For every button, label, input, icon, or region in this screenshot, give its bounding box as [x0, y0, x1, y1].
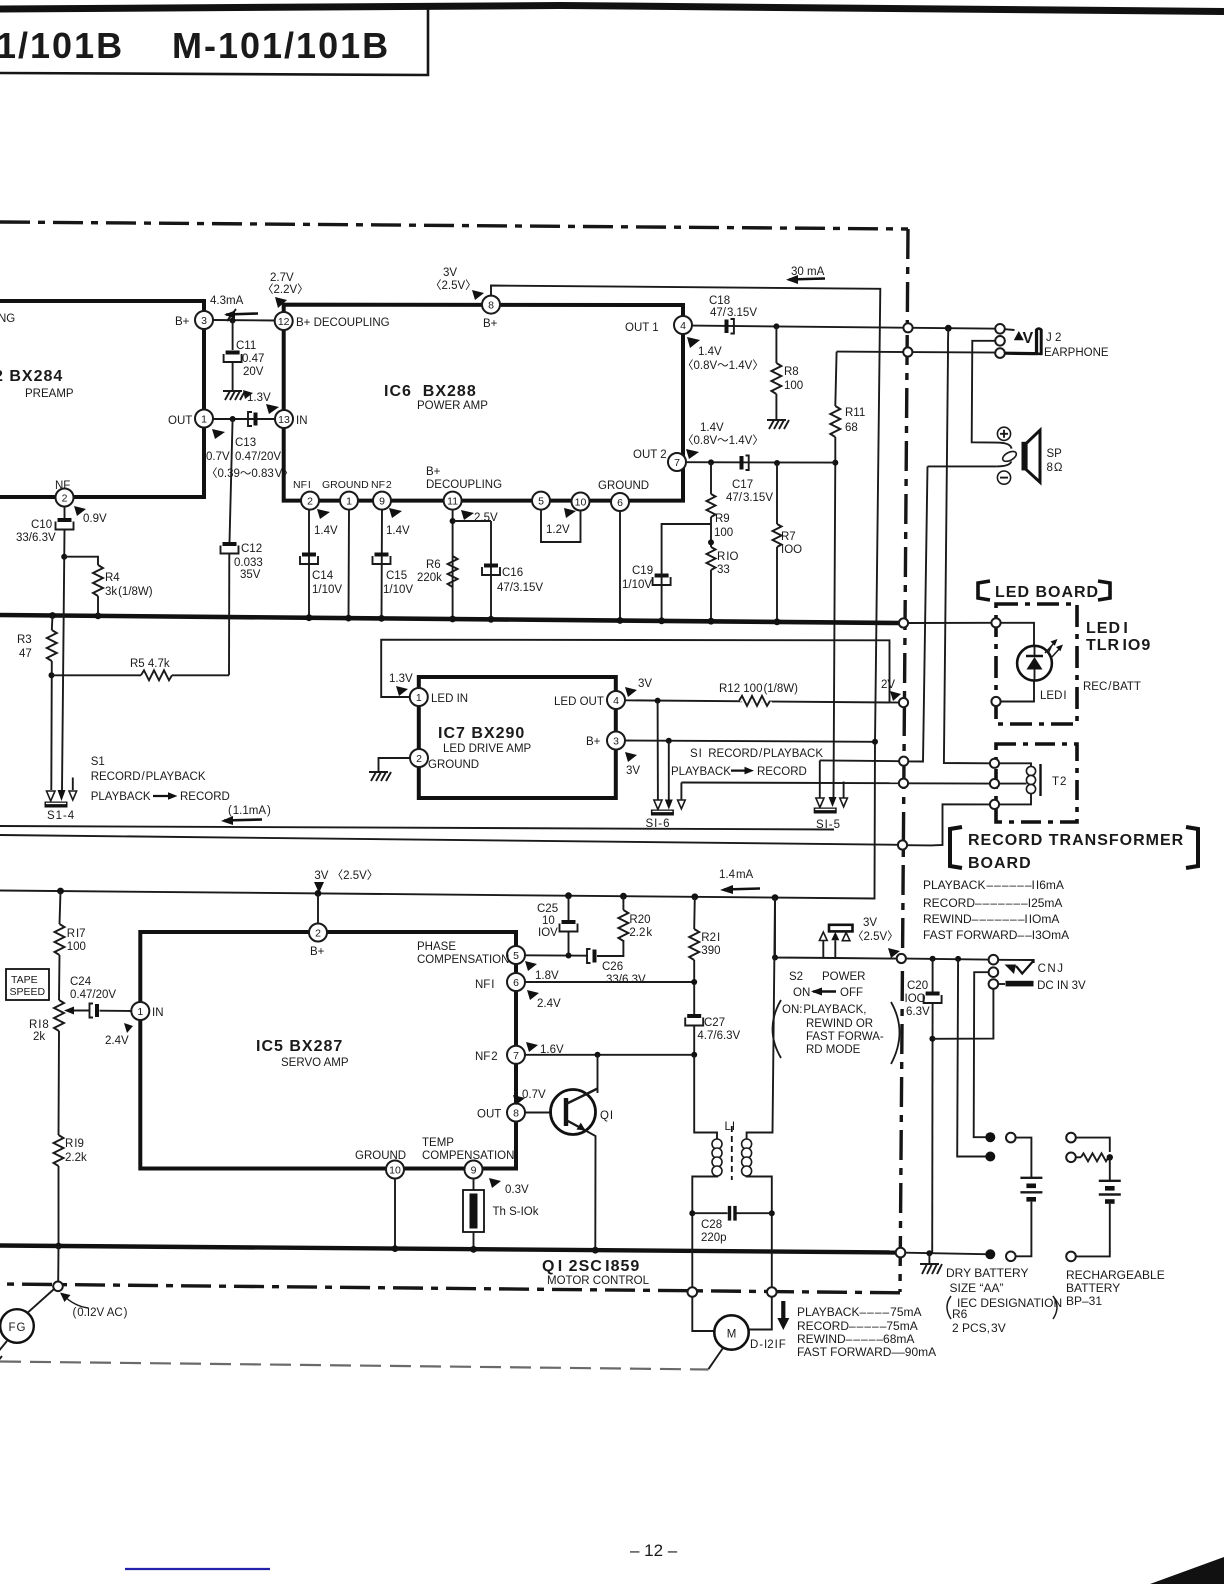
lower dashed boundary (gray): [0, 1362, 709, 1370]
pin 8 B+ top: [482, 296, 500, 330]
LED1 diode symbol: [1017, 639, 1066, 702]
svg-text:4: 4: [680, 320, 686, 332]
svg-text:IN: IN: [296, 415, 308, 427]
svg-text:10: 10: [389, 1165, 401, 1177]
T2 board pin 1: [990, 759, 999, 768]
svg-text:LED I: LED I: [1086, 620, 1129, 637]
svg-text:S I - 5: S I - 5: [816, 819, 840, 831]
board feedthrough circle SP- line: [899, 757, 908, 766]
svg-text:Q I: Q I: [600, 1110, 613, 1122]
battery - contact: [985, 1249, 995, 1259]
svg-text:47/ 3.15V: 47/ 3.15V: [726, 492, 773, 504]
wire pin4 R12 run to board: [625, 700, 903, 702]
pin 1 OUT of IC2: [168, 410, 213, 428]
svg-text:ON: ON: [793, 987, 810, 999]
pin 10: [572, 493, 590, 511]
power rail 3V: [0, 742, 875, 899]
svg-text:PLAYBACK– – – – 75mA: PLAYBACK– – – – 75mA: [797, 1305, 922, 1319]
resistor R10 33: [707, 547, 739, 621]
node SP+ tap: [945, 325, 952, 332]
svg-text:9: 9: [471, 1165, 477, 1177]
tape speed box: [6, 969, 49, 1000]
capacitor C28 220p: [689, 1206, 775, 1244]
wire pin1 drop to bus: [348, 510, 351, 618]
svg-text:B+: B+: [483, 318, 498, 330]
voltage 3V at pin3: [625, 752, 640, 777]
svg-text:OUT 1: OUT 1: [625, 322, 659, 334]
svg-text:3V: 3V: [638, 678, 652, 690]
label DRY BATTERY: [946, 1266, 1062, 1335]
svg-text:1/101B: 1/101B: [0, 25, 124, 66]
svg-text:FAST FORWA-: FAST FORWA-: [806, 1031, 884, 1043]
capacitor C24: [70, 976, 131, 1018]
voltage 1.4V at pin2: [314, 509, 338, 537]
svg-text:R5 4.7k: R5 4.7k: [130, 658, 170, 670]
wire pin1 feed from bus area: [381, 640, 889, 702]
svg-text:R IO: R IO: [717, 551, 738, 563]
wire inside LED board top: [1001, 623, 1034, 646]
capacitor C25: [537, 896, 578, 956]
current arrow 4.3mA: [210, 295, 258, 321]
svg-text:10: 10: [575, 497, 587, 509]
wire pin7 run: [525, 1054, 694, 1056]
wire SP- down to board circle: [908, 466, 997, 761]
board feedthrough circle supply: [897, 954, 906, 963]
capacitor C12: [221, 542, 263, 581]
svg-text:0.3V: 0.3V: [505, 1184, 529, 1196]
svg-text:47/ 3.15V: 47/ 3.15V: [710, 307, 757, 319]
svg-text:R8: R8: [784, 366, 799, 378]
svg-text:〈2.5V〉: 〈2.5V〉: [430, 279, 477, 292]
label 0.12V AC with leader: [60, 1293, 128, 1320]
svg-text:2: 2: [307, 496, 313, 508]
current arrow 30mA: [786, 266, 825, 284]
svg-text:IC5 BX287: IC5 BX287: [256, 1038, 343, 1055]
node feedthrough: [1006, 1252, 1016, 1262]
resistor R3 47: [17, 616, 57, 791]
battery + contact upper: [985, 1132, 995, 1142]
junction: [689, 1210, 695, 1216]
pin 8 OUT: [477, 1104, 525, 1122]
svg-text:〈2.5V〉: 〈2.5V〉: [852, 930, 899, 943]
svg-text:CNJ: CNJ: [1038, 963, 1065, 975]
svg-text:0.033: 0.033: [234, 557, 263, 569]
svg-text:IOV: IOV: [538, 927, 558, 939]
transformer T2: [999, 763, 1066, 804]
bus termination circle at board line: [899, 618, 908, 627]
svg-text:C11: C11: [236, 340, 256, 352]
voltage 1.2V at pin10: [546, 508, 576, 536]
svg-text:8 Ω: 8 Ω: [1047, 462, 1063, 474]
svg-text:REWIND OR: REWIND OR: [806, 1018, 873, 1030]
svg-text:〈0.39〜0.83 V〉: 〈0.39〜0.83 V〉: [206, 467, 294, 480]
node feedthrough: [989, 955, 999, 965]
svg-text:COMPENSATION: COMPENSATION: [422, 1150, 514, 1162]
junction: [378, 615, 385, 622]
svg-text:C25: C25: [537, 903, 558, 915]
svg-text:F G: F G: [9, 1322, 26, 1334]
svg-text:1.4V: 1.4V: [700, 422, 724, 434]
svg-text:100: 100: [784, 380, 803, 392]
svg-text:5: 5: [538, 496, 544, 508]
DC jack CNJ: [989, 955, 1086, 992]
resistor R12 100 (1/8W): [719, 683, 798, 706]
svg-text:0.7V: 0.7V: [206, 451, 230, 463]
svg-text:11: 11: [447, 496, 458, 508]
svg-text:4.7/6.3V: 4.7/6.3V: [697, 1030, 740, 1042]
node feedthrough: [53, 1282, 63, 1292]
svg-text:6: 6: [513, 977, 519, 989]
wire supply to CNJ: [906, 959, 995, 960]
svg-text:3V: 3V: [443, 267, 457, 279]
svg-text:POWER: POWER: [822, 971, 865, 983]
svg-text:1.3V: 1.3V: [247, 392, 271, 404]
svg-text:RECORD / PLAYBACK: RECORD / PLAYBACK: [91, 771, 206, 783]
svg-text:NF 2: NF 2: [371, 479, 392, 491]
dry battery holder + battery: [1006, 1133, 1042, 1261]
junction: [315, 890, 322, 897]
svg-text:33/6.3V: 33/6.3V: [606, 974, 646, 986]
voltage 1.3V at C11 ground: [243, 390, 271, 404]
svg-text:Th S-IOk: Th S-IOk: [493, 1206, 539, 1218]
svg-text:35V: 35V: [240, 569, 261, 581]
svg-text:1/10V: 1/10V: [622, 579, 652, 591]
junction: [565, 892, 572, 899]
svg-text:DRY BATTERY: DRY BATTERY: [946, 1266, 1028, 1280]
pin 2 B+ top: [309, 893, 327, 958]
svg-text:NF 2: NF 2: [475, 1051, 498, 1063]
T2 board pin 2: [990, 779, 999, 788]
wire OUT2 run: [686, 461, 835, 463]
svg-text:C16: C16: [502, 567, 523, 579]
svg-text:B+: B+: [586, 736, 601, 748]
voltage 1.6V at pin7: [526, 1042, 564, 1056]
svg-text:LED I: LED I: [1040, 690, 1067, 702]
LED board outline (dash-dot): [996, 604, 1077, 724]
pin 5: [532, 492, 550, 510]
junction: [566, 953, 572, 959]
wire pin3 B+ run: [625, 741, 875, 742]
junction: [95, 613, 102, 620]
svg-text:COMPENSATION: COMPENSATION: [417, 954, 509, 966]
svg-text:RECORD TRANSFORMER: RECORD TRANSFORMER: [968, 832, 1184, 849]
svg-text:100: 100: [67, 941, 86, 953]
svg-text:R7: R7: [781, 531, 796, 543]
svg-text:100: 100: [714, 527, 733, 539]
svg-text:2 BX284: 2 BX284: [0, 368, 63, 385]
svg-text:B+: B+: [310, 946, 325, 958]
svg-text:TEMP: TEMP: [422, 1137, 454, 1149]
svg-text:REWIND– – – – –68mA: REWIND– – – – –68mA: [797, 1332, 914, 1346]
capacitor C15: [373, 553, 414, 597]
node pin4 tap: [655, 698, 661, 704]
board feedthrough circles motor leads: [688, 1287, 698, 1297]
wire C11 drop: [232, 321, 234, 351]
wire motor to tach dashed link: [709, 1348, 724, 1369]
svg-text:1.4 mA: 1.4 mA: [719, 869, 754, 881]
svg-text:C14: C14: [312, 570, 334, 582]
svg-text:1.2V: 1.2V: [546, 524, 570, 536]
svg-text:PLAYBACK: PLAYBACK: [671, 766, 731, 778]
node feedthrough: [767, 1287, 777, 1297]
resistor R20 2.2k: [618, 896, 652, 941]
svg-text:NG: NG: [0, 313, 15, 325]
svg-text:R20: R20: [629, 914, 650, 926]
svg-text:REC / BATT: REC / BATT: [1083, 681, 1141, 693]
speaker SP 8ohm: [997, 427, 1063, 484]
wire pin9 drop to bus: [381, 510, 384, 618]
capacitor C13: [235, 412, 258, 449]
transistor Q1: [525, 1055, 613, 1249]
svg-text:Q I 2SC I859: Q I 2SC I859: [542, 1258, 640, 1275]
thermistor Th S-10k: [463, 1179, 539, 1249]
scan corner wedge: [1150, 1557, 1224, 1584]
resistor R8 100: [771, 326, 803, 394]
svg-text:RECORD– – – – –75mA: RECORD– – – – –75mA: [797, 1319, 918, 1333]
svg-text:PREAMP: PREAMP: [25, 388, 74, 400]
svg-text:1/10V: 1/10V: [383, 584, 413, 596]
pin 3 B+ of IC2: [175, 311, 213, 329]
voltage 1.3V at pin1: [389, 673, 413, 696]
svg-text:6: 6: [617, 497, 623, 509]
pin 7 OUT2: [633, 449, 686, 471]
svg-text:NF I: NF I: [293, 479, 311, 491]
svg-text:〈2.2V〉: 〈2.2V〉: [262, 283, 309, 296]
wire C11 to ground: [232, 363, 234, 392]
node feedthrough: [995, 324, 1005, 334]
motor supply bus: [0, 1246, 898, 1253]
resistor R6 220k: [417, 556, 458, 587]
voltage 1.8V at pin5: [525, 961, 559, 982]
wire pin1 to C13 to pin13: [213, 418, 275, 420]
voltage 0.7V at pin1: [206, 429, 230, 463]
pin 9 NF2: [371, 479, 392, 510]
svg-text:8: 8: [513, 1108, 519, 1120]
svg-text:2: 2: [315, 928, 321, 940]
board feedthrough circle motor bus: [896, 1248, 906, 1258]
wire R11 to OUT2 node to S1-5: [834, 437, 836, 797]
voltage 0.3V at pin9: [489, 1178, 529, 1196]
svg-text:33: 33: [717, 564, 730, 576]
wire pin6 run: [525, 981, 694, 983]
svg-text:OFF: OFF: [840, 987, 863, 999]
resistor R4 3k: [64, 557, 153, 616]
node OUT2 junction: [832, 460, 838, 466]
junction: [658, 617, 665, 624]
junction: [955, 956, 961, 962]
voltage 1.4V at pin9: [386, 508, 410, 537]
wire J2 middle to SP+: [972, 341, 997, 443]
svg-text:R11: R11: [845, 407, 865, 419]
svg-text:5: 5: [513, 950, 519, 962]
svg-text:9: 9: [379, 496, 385, 508]
IC5 BX287 servo amp box: [140, 932, 516, 1169]
label LED BOARD heading: [978, 581, 1110, 601]
pin 2 NF of IC2: [55, 480, 74, 507]
outer board border right (dash-dot): [900, 229, 908, 1292]
svg-text:R4: R4: [105, 572, 120, 584]
svg-text:2k: 2k: [33, 1031, 45, 1043]
pin 2 NF1: [293, 479, 319, 510]
svg-text:33/6.3V: 33/6.3V: [16, 532, 56, 544]
svg-text:GROUND: GROUND: [355, 1150, 406, 1162]
svg-text:C24: C24: [70, 976, 92, 988]
label ON-OFF: [793, 987, 863, 999]
potentiometer R18 2k: [29, 955, 90, 1135]
wire B+ pin8 riser and top run to x880: [491, 286, 880, 742]
junction: [592, 1247, 599, 1254]
voltage 1.4V at OUT1: [682, 337, 764, 372]
svg-text:6.3V: 6.3V: [906, 1006, 930, 1018]
svg-text:2 PCS, 3V: 2 PCS, 3V: [952, 1321, 1006, 1335]
label 1.1mA with arrow: [221, 805, 271, 825]
svg-text:0.7V: 0.7V: [522, 1089, 546, 1101]
node C20 branch to CNJ sleeve: [929, 1036, 935, 1042]
svg-text:POWER AMP: POWER AMP: [417, 400, 488, 412]
svg-text:R I9: R I9: [65, 1138, 84, 1150]
wire C19 riser and link: [662, 524, 711, 620]
outer board border top (dash-dot): [0, 222, 908, 229]
node feedthrough: [1006, 1133, 1016, 1143]
svg-text:0.47/20V: 0.47/20V: [70, 989, 116, 1001]
junction: [769, 1210, 775, 1216]
junction: [345, 615, 352, 622]
wire J2 sleeve run y351: [837, 352, 999, 353]
svg-text:FAST FORWARD––90mA: FAST FORWARD––90mA: [797, 1345, 936, 1359]
junction: [772, 955, 778, 961]
svg-text:47/3.15V: 47/3.15V: [497, 582, 543, 594]
ground below C11: [223, 391, 245, 400]
label 3V 2.5V rail: [313, 866, 378, 893]
node feedthrough: [995, 348, 1005, 358]
board feedthrough circle T2 pin2 line: [899, 779, 908, 788]
svg-text:D - I2 I F: D - I2 I F: [750, 1339, 786, 1351]
bus dots: [55, 1243, 62, 1250]
pin 6 NF1: [475, 973, 525, 991]
node feedthrough: [989, 967, 999, 977]
svg-text:3k (1/8W): 3k (1/8W): [105, 586, 153, 598]
resistor R7 100: [773, 463, 803, 621]
board feedthrough circle OUT1: [903, 323, 912, 332]
svg-text:2.7V: 2.7V: [270, 272, 294, 284]
resistor R11 68: [830, 406, 865, 437]
svg-text:1.3V: 1.3V: [389, 673, 413, 685]
capacitor C18: [709, 295, 757, 334]
voltage 2.7V 2.2V at pin12: [262, 272, 309, 308]
svg-text:R6: R6: [952, 1307, 968, 1321]
node R7 tap: [774, 460, 780, 466]
svg-text:C12: C12: [241, 543, 262, 555]
svg-text:IN: IN: [152, 1007, 164, 1019]
wire pin3 to pin12: [213, 319, 275, 322]
svg-text:MOTOR CONTROL: MOTOR CONTROL: [547, 1275, 650, 1287]
svg-text:S1: S1: [91, 756, 105, 768]
wire bus to battery contact: [905, 1253, 985, 1255]
junction: [620, 893, 627, 900]
pin 7 NF2: [475, 1046, 525, 1064]
blue margin line: [125, 1568, 270, 1570]
svg-text:DC IN 3V: DC IN 3V: [1037, 980, 1086, 992]
svg-text:GROUND: GROUND: [428, 759, 479, 771]
IC2 BX284 preamp box (cut at left edge): [0, 301, 204, 497]
svg-text:1.4V: 1.4V: [698, 346, 722, 358]
svg-text:M: M: [727, 1329, 737, 1341]
svg-text:LED BOARD: LED BOARD: [995, 584, 1099, 601]
board feedthrough circle L2: [898, 840, 907, 849]
capacitor C26: [587, 940, 646, 986]
board feedthrough circle sleeve: [903, 347, 912, 356]
board feedthrough circle LED line: [899, 698, 908, 707]
long wire L1: [0, 826, 834, 830]
svg-text:L I: L I: [725, 1121, 736, 1133]
svg-text:R9: R9: [715, 513, 730, 525]
svg-text:1.4V: 1.4V: [386, 525, 410, 537]
svg-text:3: 3: [613, 736, 619, 748]
svg-text:2.5V: 2.5V: [474, 512, 498, 524]
pin 5 phase compensation: [417, 941, 525, 966]
svg-text:R2 I: R2 I: [701, 932, 720, 944]
node feedthrough: [989, 979, 999, 989]
svg-text:RECORD: RECORD: [757, 766, 807, 778]
node junction C11 tap: [230, 318, 236, 324]
svg-text:C10: C10: [31, 519, 52, 531]
junction: [774, 618, 781, 625]
wire C12 column (from C13 node down through C12 to R5): [230, 419, 233, 542]
wire S1-6 to T2 pin2: [681, 782, 903, 785]
svg-text:S I RECORD / PLAYBACK: S I RECORD / PLAYBACK: [690, 748, 823, 760]
svg-text:R12 100 (1/8W): R12 100 (1/8W): [719, 683, 798, 695]
svg-text:IC6 BX288: IC6 BX288: [384, 383, 477, 400]
voltage 3V 2.5V at pin8: [430, 267, 484, 300]
svg-text:OUT: OUT: [477, 1109, 501, 1121]
capacitor C27: [685, 1014, 740, 1055]
svg-text:ON: PLAYBACK,: ON: PLAYBACK,: [782, 1004, 866, 1016]
svg-text:68: 68: [845, 422, 858, 434]
rechargeable battery: [1066, 1133, 1121, 1261]
wire J2 tip net to T2 pin1: [944, 353, 990, 764]
node feedthrough: [1066, 1133, 1076, 1143]
junction: [488, 616, 495, 623]
junction: [470, 1246, 477, 1253]
voltage 2V at board crossing: [881, 679, 901, 701]
motor M D-121F: [692, 1297, 785, 1351]
svg-text:2V: 2V: [881, 679, 895, 691]
switch S2: [819, 917, 898, 958]
node B+ tap to rail: [872, 739, 878, 745]
switch S1-4: [45, 778, 77, 823]
junction: [708, 618, 715, 625]
svg-text:12: 12: [278, 316, 290, 328]
svg-text:2.2k: 2.2k: [65, 1152, 87, 1164]
node C19 link junction: [708, 517, 714, 547]
svg-text:SPEED: SPEED: [10, 986, 46, 998]
FG tach generator: [0, 1246, 63, 1366]
label RECORD TRANSFORMER BOARD: [950, 827, 1198, 872]
svg-text:3: 3: [201, 315, 207, 327]
svg-text:BATTERY: BATTERY: [1066, 1281, 1120, 1295]
led board pin bottom: [991, 697, 1000, 706]
svg-text:2.4V: 2.4V: [105, 1035, 129, 1047]
wire CNJ middle to battery +: [974, 972, 989, 1137]
capacitor C20: [905, 959, 942, 1254]
svg-text:SP: SP: [1047, 448, 1063, 460]
svg-text:C13: C13: [235, 437, 256, 449]
svg-text:TAPE: TAPE: [11, 974, 38, 986]
svg-text:1.8V: 1.8V: [535, 970, 559, 982]
svg-text:IOO: IOO: [905, 993, 926, 1005]
voltage 0.7V at pin8: [513, 1089, 546, 1105]
outer board border bottom (dash-dot): [0, 1284, 900, 1293]
